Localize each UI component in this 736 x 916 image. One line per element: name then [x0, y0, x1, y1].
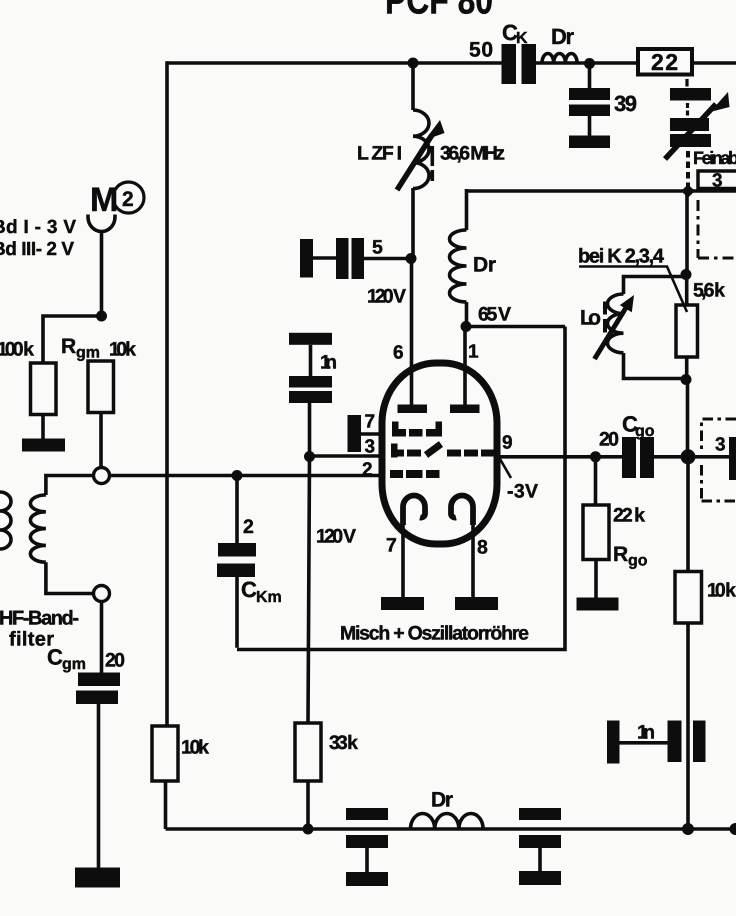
wire: 33k to bottom bus	[306, 781, 310, 829]
label 5	[372, 237, 383, 259]
node: junction 10k bottom	[682, 823, 694, 835]
pin label 7 (bottom)	[386, 535, 397, 557]
svg-text:7: 7	[365, 412, 376, 433]
svg-text:20: 20	[105, 650, 125, 672]
wire: terminal to band filter coil	[46, 476, 94, 496]
resistor Rgm 10k	[88, 361, 114, 413]
wire: pin 9 / oscillator grid line	[497, 455, 736, 459]
svg-text:5,6 k: 5,6 k	[693, 280, 725, 302]
svg-text:2: 2	[243, 516, 254, 538]
label 33 k	[329, 732, 358, 754]
capacitor 1n (bottom feedthrough)	[607, 721, 706, 764]
trimmer capacitor Feinabstimmung	[670, 88, 711, 147]
choke Dr (oscillator anode)	[465, 189, 469, 230]
anode bar pin 1	[450, 405, 480, 414]
svg-text:7: 7	[386, 535, 397, 557]
label L ZF I	[357, 143, 402, 165]
svg-text:22: 22	[651, 49, 678, 75]
box 3 (antenna terminal top)	[698, 171, 736, 189]
pointer -3V	[500, 459, 511, 478]
label 5,6 k	[693, 280, 725, 302]
wire: 1n to junction	[308, 403, 312, 457]
node: junction Lo bottom	[681, 374, 692, 385]
wire: stub to 39 cap	[588, 63, 592, 88]
label 1n (left)	[320, 352, 337, 374]
label Feinabstimmung	[693, 148, 736, 168]
label Cgo	[622, 412, 655, 441]
wire: osc node down to 10k	[686, 457, 690, 572]
ground (pin 7)	[381, 597, 424, 610]
svg-text:2: 2	[362, 460, 373, 481]
label 22 k	[613, 505, 645, 527]
pointer line bei K	[579, 267, 687, 313]
wire: 1n line down to 33k	[308, 457, 310, 723]
label Dr (top)	[551, 24, 574, 49]
label 120 V (left)	[316, 526, 356, 548]
svg-text:-3V: -3V	[507, 481, 538, 503]
label 20 (Cgo)	[599, 429, 619, 451]
label 65 V	[478, 304, 511, 326]
label 39	[614, 91, 637, 116]
label Lo	[580, 307, 601, 330]
label 10k (left)	[181, 737, 209, 759]
label filter	[9, 629, 54, 651]
svg-text:Misch + Oszillatorröhre: Misch + Oszillatorröhre	[340, 623, 529, 645]
wire: Lo bottom link	[624, 353, 687, 379]
node: junction Cgo / oscillator	[681, 449, 696, 464]
node: junction right edge	[730, 823, 736, 835]
ground (100k)	[22, 439, 65, 452]
label M	[90, 181, 118, 219]
node: junction Lo top	[681, 269, 692, 280]
ground (22k)	[577, 598, 619, 611]
svg-text:36,6 MHz: 36,6 MHz	[440, 143, 505, 165]
cathode hook right	[451, 496, 473, 526]
choke Dr (top)	[542, 53, 577, 63]
resistor 10k (right)	[675, 572, 702, 624]
resistor 5,6k	[676, 305, 698, 357]
svg-text:22 k: 22 k	[613, 505, 645, 527]
label Ckm	[241, 577, 282, 606]
capacitor Cgo	[622, 437, 654, 478]
label 50	[469, 39, 493, 62]
wire: Rgm to terminal	[99, 413, 103, 468]
capacitor Cgm	[76, 673, 120, 705]
resistor 100k	[31, 363, 57, 415]
wire: pin 1 anode wire	[463, 327, 467, 405]
capacitor 1n (left, feedthrough)	[289, 333, 332, 403]
feedthrough capacitor (bottom right)	[519, 808, 561, 885]
wire: Ckm to U-wire	[235, 577, 239, 648]
svg-text:C: C	[241, 577, 257, 602]
wire: coil to lower terminal	[46, 562, 94, 593]
svg-text:PCF 80: PCF 80	[385, 0, 493, 23]
label bei K 2,3,4	[578, 246, 665, 268]
capacitor 5 / screen bypass	[300, 238, 364, 279]
label 20 (Cgm)	[105, 650, 125, 672]
node: junction top bus / ZFI branch	[408, 58, 419, 69]
title PCF 80	[385, 0, 493, 23]
svg-text:R: R	[613, 543, 628, 566]
wire: 65V junction to right vertical	[466, 325, 565, 329]
label Bd III- 2 V	[0, 239, 74, 260]
label 3 (middle right)	[715, 435, 726, 456]
node: junction pin6 line	[406, 253, 417, 264]
grid row pin 2	[390, 470, 440, 478]
svg-text:3: 3	[712, 171, 723, 192]
dashed link trimmer	[685, 79, 689, 116]
resistor 22k Rgo	[583, 505, 609, 560]
wire: Cgm down to chassis	[97, 704, 101, 868]
label 100 k	[0, 339, 34, 361]
wire: pin 7 stub	[361, 432, 382, 436]
wire: M2 down to junction	[100, 230, 104, 316]
box 22 (terminal)	[638, 49, 692, 75]
wire: top horizontal bus y=63	[166, 61, 736, 65]
svg-text:120 V: 120 V	[367, 286, 406, 308]
arrow of trimmer	[665, 104, 716, 159]
arrow of ZFI	[397, 135, 432, 190]
node: junction Ckm on grid line	[232, 470, 243, 481]
pin label 8 (bottom)	[477, 537, 488, 559]
wire: Lo top link	[624, 277, 687, 295]
coil HF band filter (secondary)	[30, 495, 46, 562]
resistor 33k	[295, 723, 321, 781]
wire: 10k to bottom bus corner	[164, 781, 168, 829]
measuring cup symbol	[88, 215, 115, 232]
svg-text:gm: gm	[76, 345, 100, 362]
svg-text:65 V: 65 V	[478, 304, 511, 326]
choke Dr (bottom)	[411, 814, 484, 830]
label Rgm	[61, 335, 100, 362]
svg-text:Km: Km	[256, 589, 282, 606]
label Dr (bottom)	[431, 789, 453, 812]
wire: oscillator top line y=191	[467, 189, 736, 193]
wire: pin 7 cathode to ground	[401, 523, 405, 598]
svg-text:10 k: 10 k	[707, 580, 736, 602]
grid row pin 3 / 9	[391, 444, 494, 458]
label 36,6 MHz	[440, 143, 505, 165]
svg-text:100 k: 100 k	[0, 339, 34, 361]
node: diamond junction fine tuning	[681, 184, 695, 198]
wire: terminal down to Cgm	[100, 602, 104, 674]
variable inductor L ZF I on x=413	[411, 63, 415, 110]
capacitor Ck	[502, 44, 537, 84]
capacitor near pin 7	[348, 415, 362, 452]
anode bar pin 6	[398, 405, 428, 414]
svg-text:3: 3	[715, 435, 726, 456]
resistor 10k (left loop)	[152, 726, 178, 781]
node: junction 1n / pin3 wire	[304, 451, 315, 462]
svg-text:9: 9	[502, 433, 513, 454]
label -3V	[507, 481, 538, 503]
node: junction bus / 39 cap	[584, 58, 595, 69]
wire: bottom bus y=829	[166, 827, 736, 831]
terminal circle 2 (measuring point M2)	[113, 182, 144, 213]
wire: junction to Ckm	[235, 476, 239, 544]
svg-text:20: 20	[599, 429, 619, 451]
dash-dot tuner boundary (middle right)	[702, 419, 736, 501]
label Bd I - 3 V	[0, 217, 76, 238]
svg-text:C: C	[47, 645, 63, 670]
dotted link to oscillator line	[686, 151, 690, 189]
label 10 k (right)	[707, 580, 736, 602]
label Cgm	[47, 645, 86, 674]
svg-text:33 k: 33 k	[329, 732, 358, 754]
svg-text:go: go	[635, 423, 655, 440]
wire: pin 8 cathode to ground	[471, 523, 475, 598]
wire: 100k to ground	[41, 415, 45, 440]
svg-text:R: R	[61, 335, 76, 358]
svg-text:8: 8	[477, 537, 488, 559]
svg-text:10k: 10k	[181, 737, 209, 759]
terminal circle (band filter lower)	[94, 586, 110, 602]
svg-text:39: 39	[614, 91, 637, 116]
chassis bar (Cgm)	[75, 868, 120, 888]
cathode hook left	[403, 496, 425, 526]
svg-text:Bd I - 3 V: Bd I - 3 V	[0, 217, 76, 238]
node: junction 33k bottom	[303, 824, 314, 835]
node: junction Rgm	[96, 311, 107, 322]
coil HF band filter (primary, cut at edge)	[0, 492, 11, 549]
wire: left loop vertical x=167	[165, 61, 169, 726]
capacitor Ckm	[217, 543, 256, 577]
label 1n (bottom)	[637, 722, 655, 744]
svg-text:Lo: Lo	[580, 307, 601, 330]
wire: to 22k	[594, 457, 598, 505]
svg-text:gm: gm	[62, 656, 86, 673]
pin label 2	[362, 460, 373, 481]
arrow of Lo	[595, 306, 628, 359]
svg-text:10 k: 10 k	[109, 339, 136, 361]
svg-text:Dr: Dr	[473, 254, 496, 277]
wire: main grid line y=476	[110, 474, 383, 478]
feedthrough capacitor (bottom left)	[346, 808, 388, 886]
capacitor plate at right edge	[729, 437, 736, 480]
capacitor 39 (feedthrough style)	[569, 88, 610, 148]
svg-text:6: 6	[393, 343, 404, 364]
wire: 5,6k stubs	[685, 276, 689, 380]
label Rgo	[613, 543, 648, 570]
svg-text:Bd III- 2 V: Bd III- 2 V	[0, 239, 74, 260]
dash-dot tuner boundary (top right)	[698, 200, 736, 258]
inductor Lo (oscillator coil, variable)	[608, 294, 624, 353]
pin label 3	[365, 437, 376, 458]
label Dr (oscillator)	[473, 254, 496, 277]
svg-text:go: go	[628, 553, 648, 570]
svg-text:1: 1	[468, 342, 479, 363]
label HF-Band-	[0, 608, 79, 630]
core dashes Lo	[603, 302, 607, 333]
pin label 1	[468, 342, 479, 363]
svg-text:5: 5	[372, 237, 383, 259]
wire: Lo node down to grid line	[686, 380, 690, 457]
wire: 10k down through 1n to bottom bus	[686, 623, 690, 829]
wire: oscillator line diamond down to Lo node	[685, 191, 689, 276]
pin label 9	[502, 433, 513, 454]
wire: pin 3 line	[310, 454, 383, 458]
svg-text:Feinab: Feinab	[693, 148, 736, 168]
svg-text:L ZF I: L ZF I	[357, 143, 402, 165]
wire: U-wire around tube to 65V line	[237, 327, 565, 650]
terminal circle (grid line left)	[94, 468, 110, 484]
pin label 7	[365, 412, 376, 433]
tube PCF80 envelope	[382, 363, 497, 544]
svg-text:K: K	[516, 30, 528, 47]
wire: pin 6 anode wire	[410, 259, 414, 405]
wire: 5 cap to pin6 line	[364, 257, 411, 261]
svg-text:Dr: Dr	[431, 789, 453, 812]
svg-text:1n: 1n	[637, 722, 655, 744]
ground (pin 8)	[455, 597, 498, 610]
pin label 6	[393, 343, 404, 364]
label Ck	[502, 20, 528, 47]
core dashes of ZFI	[431, 146, 435, 181]
grid row pin 7	[392, 422, 442, 437]
wire: to 100k	[43, 316, 102, 363]
svg-text:1n: 1n	[320, 352, 337, 374]
svg-text:50: 50	[469, 39, 493, 62]
label 120 V	[367, 286, 406, 308]
svg-text:3: 3	[365, 437, 376, 458]
svg-text:2: 2	[122, 188, 134, 211]
svg-text:HF-Band-: HF-Band-	[0, 608, 79, 630]
svg-text:Dr: Dr	[551, 24, 574, 49]
label 2 (Ckm)	[243, 516, 254, 538]
wire: 22k to ground	[594, 560, 598, 599]
svg-text:bei K 2,3,4: bei K 2,3,4	[578, 246, 665, 268]
label Misch + Oszillatorroehre	[340, 623, 529, 645]
node: junction 22k	[590, 451, 601, 462]
label 10 k	[109, 339, 136, 361]
svg-text:120 V: 120 V	[316, 526, 356, 548]
node: junction 65V	[461, 321, 472, 332]
